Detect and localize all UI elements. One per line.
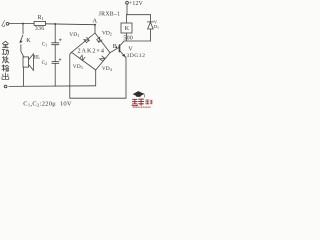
capacitor C1 plates <box>52 43 59 45</box>
wire A stub down <box>94 25 96 33</box>
svg-text:R1: R1 <box>38 15 44 21</box>
watermark url line <box>133 106 151 108</box>
switch K blade <box>20 35 23 43</box>
wire C1 to C2 <box>54 45 56 62</box>
bridge arm VD1 wire <box>72 33 96 52</box>
relay coil lead top <box>125 15 127 23</box>
input terminal top-left <box>6 22 9 25</box>
svg-text:JRXB–1: JRXB–1 <box>99 11 121 17</box>
wire bridge bottom vertex to rail <box>95 70 97 86</box>
wire bridge left vertex down <box>70 52 72 98</box>
diode VD3 <box>80 55 85 60</box>
diode VD5 lead top <box>150 15 152 22</box>
switch K arrowhead <box>20 40 22 43</box>
svg-text:K: K <box>26 38 31 44</box>
bottom terminal <box>4 85 7 88</box>
wire +12V down <box>126 4 128 15</box>
diode VD2 <box>97 37 102 42</box>
emitter arrowhead <box>122 54 125 57</box>
svg-text:2AK2×4: 2AK2×4 <box>78 47 105 54</box>
char chu <box>2 73 9 80</box>
resistor R1 <box>34 21 45 25</box>
wire base lead <box>110 47 119 52</box>
transistor collector <box>120 41 124 45</box>
capacitor C2 plates <box>52 62 59 64</box>
svg-text:VD1: VD1 <box>69 32 79 38</box>
diode VD5 bar <box>147 21 153 23</box>
svg-text:VD3: VD3 <box>73 64 83 70</box>
svg-text:BL: BL <box>34 56 40 61</box>
junction node K branch <box>22 23 24 25</box>
wire switch to speaker <box>21 45 24 57</box>
capacitor C2 bottom lead <box>54 63 56 86</box>
svg-text:+12V: +12V <box>129 1 144 7</box>
wire top rail right <box>46 23 96 26</box>
svg-text:C2: C2 <box>42 61 47 66</box>
svg-text:D5: D5 <box>154 24 159 30</box>
switch K upper lead <box>22 24 24 34</box>
bridge arm VD3 wire <box>72 52 96 70</box>
terminal tick mark <box>2 21 5 27</box>
C2 polarity plus <box>59 58 61 60</box>
+12V terminal <box>126 1 129 4</box>
wire supply split <box>127 14 151 16</box>
svg-text:500: 500 <box>123 36 133 42</box>
char gong <box>2 49 9 55</box>
diode VD4 <box>100 56 105 61</box>
relay coil K box <box>121 23 132 33</box>
svg-text:C1: C1 <box>42 43 47 48</box>
svg-text:3DG12: 3DG12 <box>126 53 145 59</box>
svg-text:V: V <box>128 46 133 53</box>
bridge arm VD2 wire <box>95 33 110 53</box>
svg-text:336: 336 <box>35 26 45 32</box>
svg-text:VD2: VD2 <box>102 31 112 37</box>
wire top rail left <box>9 23 34 25</box>
svg-text:A: A <box>92 18 97 25</box>
speaker BL cone <box>29 54 34 70</box>
C1 polarity plus <box>59 39 61 41</box>
char fang <box>2 56 9 63</box>
wire bottom loop <box>70 97 126 99</box>
relay coil lead bottom <box>125 33 127 41</box>
node A dot <box>94 24 96 26</box>
svg-text:B: B <box>113 43 117 50</box>
bottom rail <box>9 85 96 88</box>
svg-text:K: K <box>125 26 130 32</box>
collector node wire <box>124 40 151 42</box>
transistor V bar <box>119 45 121 52</box>
svg-text:C1,C2:220μ 10V: C1,C2:220μ 10V <box>23 100 72 107</box>
speaker BL box <box>23 57 29 67</box>
diode VD5 triangle <box>148 22 154 29</box>
capacitor C1 top lead <box>54 24 56 43</box>
wire emitter down <box>125 58 127 98</box>
watermark logo cap <box>133 91 145 97</box>
label input Chinese column (hand-drawn glyphs) <box>2 41 9 79</box>
diode VD5 lead bottom <box>150 29 152 41</box>
char quan <box>2 41 8 47</box>
diode VD1 <box>84 37 89 42</box>
char shu <box>2 65 9 71</box>
speaker bottom lead <box>23 67 25 86</box>
svg-text:VD4: VD4 <box>102 66 112 72</box>
node B dot <box>116 46 118 48</box>
watermark red text xunwei <box>132 99 152 105</box>
junction node C1 top <box>54 23 56 25</box>
transistor emitter <box>120 51 126 58</box>
bridge arm VD4 wire <box>96 53 110 70</box>
